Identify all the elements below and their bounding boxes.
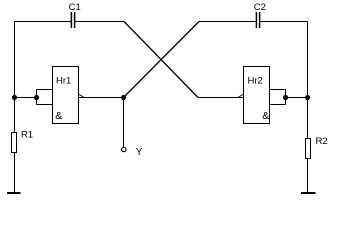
svg-text:R2: R2: [316, 136, 328, 147]
wire Hr1 output to node: [79, 97, 124, 99]
wire Hr1 input tie vertical: [36, 90, 38, 105]
svg-text:C2: C2: [254, 2, 266, 13]
node junction on left bus: [12, 95, 17, 100]
wire from output node down to terminal Y: [123, 98, 125, 148]
wire diagonal from top bend down to Hr2 output row: [124, 22, 198, 98]
wire right bus to Hr2 input tie: [286, 97, 308, 99]
wire Hr1 input stub upper: [37, 89, 53, 91]
ground left: [7, 192, 21, 194]
node junction on right bus: [305, 95, 310, 100]
wire top-left horizontal from left bus to C1: [15, 21, 72, 23]
resistor R1: [12, 130, 34, 153]
wire Hr1 input stub lower: [37, 104, 53, 106]
node Y open terminal: [122, 147, 126, 151]
wire Hr2 input stub lower: [270, 104, 286, 106]
svg-text:&: &: [262, 110, 269, 122]
wire left bus vertical: [14, 22, 16, 133]
ground right: [301, 192, 316, 194]
wire R1 to ground: [14, 153, 16, 194]
svg-text:Hr1: Hr1: [56, 75, 71, 86]
gate U1 logic block Hr1: [53, 67, 85, 124]
resistor R2: [306, 136, 328, 159]
node junction at Hr1 input tie: [34, 95, 39, 100]
wire Hr2 input tie vertical: [285, 90, 287, 105]
wire left bus to Hr1 input tie: [15, 97, 37, 99]
capacitor C1: [69, 2, 81, 28]
svg-text:Hr2: Hr2: [248, 75, 263, 86]
wire C1 to top bend: [75, 21, 124, 23]
capacitor C2: [254, 2, 266, 28]
svg-text:Y: Y: [136, 147, 143, 158]
svg-text:R1: R1: [21, 130, 33, 141]
node junction at Hr1 output: [121, 95, 126, 100]
svg-text:C1: C1: [69, 2, 81, 13]
node junction at Hr2 input tie: [283, 95, 288, 100]
svg-text:&: &: [55, 110, 62, 122]
wire top row to C2: [199, 21, 256, 23]
wire horizontal to Hr2 output: [198, 97, 244, 99]
wire Hr2 input stub upper: [270, 89, 286, 91]
gate U2 logic block Hr2: [238, 67, 270, 124]
wire diagonal from Hr1 output node up to top row: [124, 22, 200, 98]
wire C2 to top-right corner: [260, 21, 308, 23]
wire R2 to ground: [307, 159, 309, 194]
wire right bus vertical: [307, 22, 309, 139]
